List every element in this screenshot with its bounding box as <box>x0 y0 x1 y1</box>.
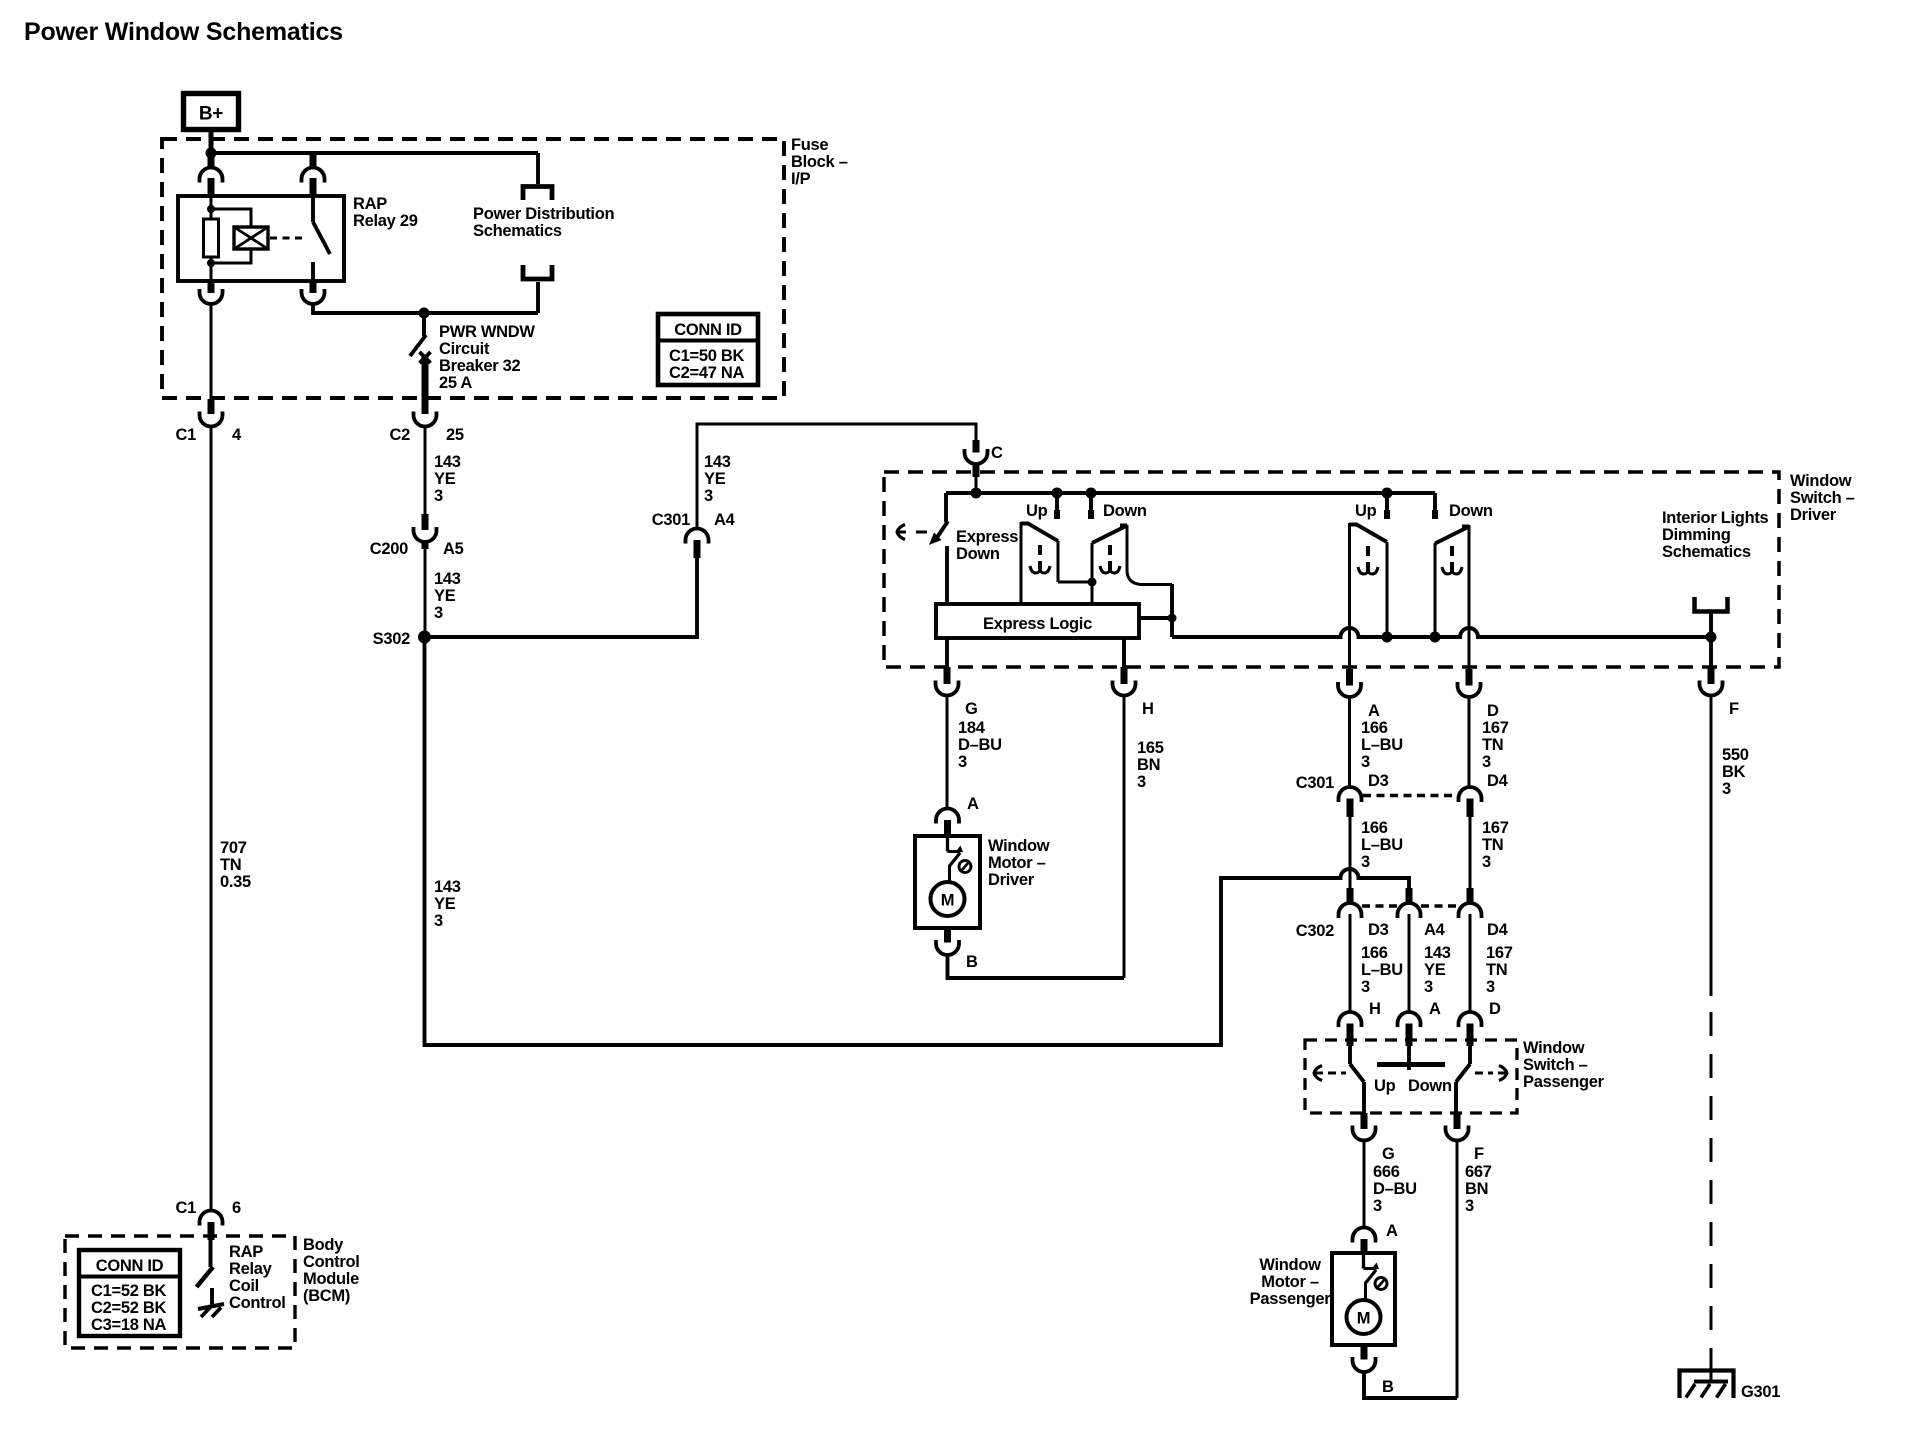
svg-text:YE: YE <box>434 895 456 913</box>
svg-text:3: 3 <box>1465 1197 1474 1215</box>
connector row C301 D4 <box>1459 787 1482 802</box>
svg-text:Express Logic: Express Logic <box>983 615 1092 633</box>
connector row C302 A4 <box>1406 888 1413 903</box>
connector H driver switch <box>1121 667 1128 684</box>
wire 166 L-BU middle <box>1349 816 1352 888</box>
svg-text:Coil: Coil <box>229 1277 259 1295</box>
connector B driver motor <box>944 928 951 943</box>
svg-text:143: 143 <box>1424 944 1451 962</box>
svg-text:166: 166 <box>1361 719 1388 737</box>
svg-text:RAP: RAP <box>229 1243 263 1261</box>
wire 143 YE S302 to passenger switch A4 <box>425 641 1410 1045</box>
svg-text:(BCM): (BCM) <box>303 1287 350 1305</box>
svg-text:3: 3 <box>958 753 967 771</box>
svg-text:167: 167 <box>1482 819 1509 837</box>
connector D driver switch <box>1466 669 1473 686</box>
svg-text:G: G <box>1382 1145 1395 1163</box>
connector F driver switch <box>1709 637 1713 667</box>
svg-text:F: F <box>1729 700 1739 718</box>
connector F passenger switch <box>1454 1113 1461 1129</box>
svg-text:Window: Window <box>1259 1256 1321 1274</box>
svg-text:RAP: RAP <box>353 195 387 213</box>
node down1 junction <box>1086 488 1097 499</box>
svg-text:I/P: I/P <box>791 170 811 188</box>
relay coil (box with X) <box>234 227 268 249</box>
svg-text:184: 184 <box>958 719 986 737</box>
svg-text:Up: Up <box>1374 1077 1396 1095</box>
svg-text:D: D <box>1489 1000 1501 1018</box>
svg-text:A4: A4 <box>714 511 736 529</box>
svg-text:M: M <box>1357 1310 1370 1328</box>
RAP relay coil control switch <box>209 1240 213 1267</box>
wire relay to C1 <box>210 304 213 400</box>
svg-text:A: A <box>1368 702 1380 720</box>
svg-text:H: H <box>1142 700 1154 718</box>
wire 667 BN <box>1456 1141 1459 1399</box>
B+ battery terminal <box>184 94 239 130</box>
svg-text:C1=52 BK: C1=52 BK <box>91 1282 166 1300</box>
interior lights dimming link bracket <box>1695 597 1728 612</box>
svg-text:Driver: Driver <box>988 871 1035 889</box>
svg-text:D–BU: D–BU <box>958 736 1002 754</box>
wire coil branch bottom <box>211 249 251 263</box>
svg-text:A5: A5 <box>443 540 464 558</box>
svg-text:3: 3 <box>704 487 713 505</box>
svg-text:167: 167 <box>1482 719 1509 737</box>
wire B to 165 BN <box>948 955 1125 978</box>
svg-text:25: 25 <box>446 426 464 444</box>
relay mechanical linkage (dashed) <box>270 237 303 240</box>
svg-text:TN: TN <box>1482 836 1503 854</box>
connector row C302 D4 <box>1467 888 1474 903</box>
svg-text:Control: Control <box>303 1253 360 1271</box>
svg-text:A: A <box>1429 1000 1441 1018</box>
passenger switch down blade <box>1468 1045 1472 1064</box>
svg-text:S302: S302 <box>373 630 410 648</box>
svg-text:Passenger: Passenger <box>1523 1073 1605 1091</box>
circle-slash breaker symbol <box>959 861 971 873</box>
svg-text:TN: TN <box>1486 961 1507 979</box>
svg-text:L–BU: L–BU <box>1361 736 1403 754</box>
svg-text:3: 3 <box>1361 753 1370 771</box>
connector C301 A4 <box>694 540 701 558</box>
svg-text:D4: D4 <box>1487 772 1509 790</box>
svg-text:Power Distribution: Power Distribution <box>473 205 614 223</box>
connector below relay switch output <box>310 281 317 293</box>
svg-text:25 A: 25 A <box>439 374 472 392</box>
wire S302 to C301 A4 <box>425 558 698 637</box>
svg-text:A: A <box>1386 1222 1398 1240</box>
svg-text:C2: C2 <box>390 426 411 444</box>
svg-text:3: 3 <box>1373 1197 1382 1215</box>
svg-text:3: 3 <box>1482 753 1491 771</box>
connector row C302 D3 <box>1347 888 1354 903</box>
svg-text:Fuse: Fuse <box>791 136 828 154</box>
wire: B+ feed rail <box>209 151 538 155</box>
driver switch lower rail <box>1172 628 1711 637</box>
window switch driver dashed box <box>884 472 1779 667</box>
splice S302 <box>418 631 431 644</box>
node down2 lower <box>1430 632 1441 643</box>
svg-text:Down: Down <box>1103 502 1147 520</box>
power distribution schematic link (top bracket) <box>536 153 540 184</box>
svg-text:D3: D3 <box>1368 772 1389 790</box>
svg-text:CONN ID: CONN ID <box>96 1257 164 1275</box>
svg-text:3: 3 <box>434 604 443 622</box>
svg-text:YE: YE <box>1424 961 1446 979</box>
svg-text:L–BU: L–BU <box>1361 961 1403 979</box>
svg-text:Switch –: Switch – <box>1790 489 1855 507</box>
node interior lights junction <box>1706 632 1717 643</box>
svg-text:3: 3 <box>434 912 443 930</box>
power distribution schematic link (bottom bracket) <box>523 265 552 279</box>
svg-text:Window: Window <box>988 837 1050 855</box>
wire 167 TN middle <box>1469 816 1472 888</box>
svg-text:Motor –: Motor – <box>1261 1273 1319 1291</box>
svg-text:D–BU: D–BU <box>1373 1180 1417 1198</box>
connector G driver switch <box>944 667 951 684</box>
relay switch contact wire <box>311 196 315 222</box>
svg-text:Schematics: Schematics <box>1662 543 1751 561</box>
svg-text:D4: D4 <box>1487 921 1509 939</box>
svg-text:YE: YE <box>434 470 456 488</box>
svg-text:Down: Down <box>956 545 1000 563</box>
svg-text:BN: BN <box>1465 1180 1488 1198</box>
svg-text:C2=47 NA: C2=47 NA <box>669 364 744 382</box>
svg-text:G301: G301 <box>1741 1383 1780 1401</box>
motor thermal protector switch <box>1362 1253 1365 1269</box>
svg-text:Power Window Schematics: Power Window Schematics <box>24 18 343 46</box>
node up1 junction <box>1052 488 1063 499</box>
svg-text:165: 165 <box>1137 739 1164 757</box>
wire 143 YE C2 to C200 <box>424 427 427 515</box>
express logic box <box>936 604 1139 638</box>
wire 143 YE lower <box>1408 914 1411 1012</box>
wire 707 to BCM <box>210 427 213 1211</box>
svg-text:A4: A4 <box>1424 921 1446 939</box>
momentary linkage right <box>1498 1066 1507 1081</box>
connector C at driver switch <box>973 440 980 453</box>
node relay coil bottom junction <box>207 259 215 267</box>
passenger switch up blade <box>1348 1045 1352 1064</box>
svg-text:Express: Express <box>956 528 1018 546</box>
svg-text:3: 3 <box>1722 780 1731 798</box>
svg-text:G: G <box>965 700 978 718</box>
wire up/down tie to express logic <box>1058 581 1092 584</box>
connector C1 pin 4 at fuse block <box>208 399 215 414</box>
svg-text:M: M <box>941 892 954 910</box>
svg-text:BN: BN <box>1137 756 1160 774</box>
svg-text:D3: D3 <box>1368 921 1389 939</box>
svg-text:Schematics: Schematics <box>473 222 562 240</box>
svg-text:143: 143 <box>434 453 461 471</box>
wire 550 BK <box>1710 696 1713 997</box>
svg-text:Relay: Relay <box>229 1260 273 1278</box>
wire 666 D-BU <box>1363 1141 1366 1228</box>
circle-slash breaker symbol <box>1375 1278 1387 1290</box>
svg-text:Dimming: Dimming <box>1662 526 1730 544</box>
svg-text:Down: Down <box>1449 502 1493 520</box>
svg-text:C302: C302 <box>1296 922 1334 940</box>
connector C200 A5 <box>422 514 429 530</box>
svg-text:166: 166 <box>1361 944 1388 962</box>
CONN ID table (fuse block) <box>658 314 758 385</box>
svg-text:Module: Module <box>303 1270 359 1288</box>
relay switch blade <box>313 222 330 254</box>
svg-text:3: 3 <box>1361 853 1370 871</box>
connector below relay pin C1 side <box>208 281 215 293</box>
svg-text:C301: C301 <box>652 511 690 529</box>
svg-text:3: 3 <box>1137 773 1146 791</box>
fuse block I/P dashed box <box>162 139 784 398</box>
connector pin into RAP relay pin 1 <box>208 155 215 168</box>
svg-text:BK: BK <box>1722 763 1746 781</box>
wire C301 A4 up and over to driver switch C <box>697 424 976 529</box>
svg-text:166: 166 <box>1361 819 1388 837</box>
svg-text:Breaker 32: Breaker 32 <box>439 357 521 375</box>
svg-text:C2=52 BK: C2=52 BK <box>91 1299 166 1317</box>
svg-text:B+: B+ <box>199 104 223 125</box>
wire express logic H output <box>1122 638 1126 667</box>
window motor driver box <box>915 836 980 928</box>
svg-text:Block –: Block – <box>791 153 848 171</box>
svg-text:143: 143 <box>434 570 461 588</box>
wire 167 TN lower <box>1469 914 1472 1012</box>
svg-text:Relay 29: Relay 29 <box>353 212 418 230</box>
svg-text:Window: Window <box>1523 1039 1585 1057</box>
wire relay coil top <box>210 196 213 220</box>
svg-text:YE: YE <box>704 470 726 488</box>
node up2 junction <box>1382 488 1393 499</box>
resistor (relay coil parallel resistor) <box>204 219 219 257</box>
svg-text:Driver: Driver <box>1790 506 1837 524</box>
svg-text:F: F <box>1474 1145 1484 1163</box>
motor thermal protector switch <box>946 836 949 852</box>
svg-text:C1=50 BK: C1=50 BK <box>669 347 744 365</box>
svg-text:Switch –: Switch – <box>1523 1056 1588 1074</box>
svg-text:550: 550 <box>1722 746 1749 764</box>
svg-text:C: C <box>991 444 1003 462</box>
svg-text:Motor –: Motor – <box>988 854 1046 872</box>
wire 165 BN <box>1123 696 1126 979</box>
motor M circle <box>931 882 965 916</box>
wire express logic G output <box>945 638 949 667</box>
wire 166 L-BU lower <box>1349 914 1352 1012</box>
svg-text:Up: Up <box>1355 502 1377 520</box>
node: B+ rail junction <box>206 148 217 159</box>
driver switch supply rail <box>946 491 1435 495</box>
svg-text:3: 3 <box>1482 853 1491 871</box>
connector pin into RAP relay pin 2 <box>310 155 317 168</box>
svg-text:Circuit: Circuit <box>439 340 490 358</box>
BCM dashed box <box>65 1236 295 1348</box>
svg-text:4: 4 <box>232 426 242 444</box>
svg-text:B: B <box>966 953 978 971</box>
svg-text:CONN ID: CONN ID <box>674 321 742 339</box>
svg-text:707: 707 <box>220 839 247 857</box>
wire 167 TN upper <box>1468 697 1471 788</box>
connector G passenger switch <box>1361 1113 1368 1129</box>
node up2 lower <box>1382 632 1393 643</box>
wire 184 D-BU <box>946 696 949 809</box>
C301 mating dashed line <box>1363 794 1457 798</box>
connector A driver switch <box>1346 669 1353 686</box>
wire down1 to lower rail <box>1170 584 1174 637</box>
svg-text:C301: C301 <box>1296 774 1334 792</box>
svg-text:H: H <box>1369 1000 1381 1018</box>
wire relay output to breaker node <box>313 304 538 313</box>
svg-text:143: 143 <box>434 878 461 896</box>
ground G301 <box>1680 1371 1734 1399</box>
window motor passenger box <box>1332 1253 1395 1345</box>
svg-text:Passenger: Passenger <box>1250 1290 1332 1308</box>
svg-text:D: D <box>1487 702 1499 720</box>
wire 166 L-BU upper <box>1348 697 1351 788</box>
svg-text:3: 3 <box>1424 978 1433 996</box>
svg-text:666: 666 <box>1373 1163 1400 1181</box>
svg-text:0.35: 0.35 <box>220 873 251 891</box>
svg-text:Up: Up <box>1026 502 1048 520</box>
svg-text:Control: Control <box>229 1294 286 1312</box>
wire C into driver switch box <box>975 464 978 493</box>
window switch passenger dashed box <box>1305 1040 1517 1113</box>
svg-text:TN: TN <box>1482 736 1503 754</box>
svg-text:TN: TN <box>220 856 241 874</box>
svg-text:Interior Lights: Interior Lights <box>1662 509 1769 527</box>
node relay coil top junction <box>207 205 215 213</box>
svg-text:C200: C200 <box>370 540 408 558</box>
svg-text:B: B <box>1382 1378 1394 1396</box>
svg-text:3: 3 <box>1361 978 1370 996</box>
node breaker junction <box>419 308 430 319</box>
svg-text:C3=18 NA: C3=18 NA <box>91 1316 166 1334</box>
svg-text:L–BU: L–BU <box>1361 836 1403 854</box>
svg-text:3: 3 <box>434 487 443 505</box>
svg-text:A: A <box>967 795 979 813</box>
svg-text:Down: Down <box>1408 1077 1452 1095</box>
node C junction <box>971 488 982 499</box>
wire B to 667 BN <box>1364 1372 1457 1398</box>
ground in BCM <box>198 1304 224 1309</box>
connector B passenger motor <box>1361 1345 1368 1360</box>
connector row C301 D3 <box>1339 787 1362 802</box>
svg-text:Body: Body <box>303 1236 344 1254</box>
motor M circle <box>1347 1300 1381 1334</box>
svg-text:YE: YE <box>434 587 456 605</box>
wire coil branch <box>211 209 251 227</box>
PWR WNDW circuit breaker 32 <box>422 317 426 336</box>
svg-text:3: 3 <box>1486 978 1495 996</box>
wire 143 YE C200 to S302 <box>424 548 427 637</box>
svg-text:C1: C1 <box>176 1199 197 1217</box>
CONN ID table (BCM) <box>79 1250 180 1336</box>
C302 mating dashed lines <box>1362 904 1397 908</box>
express down switch <box>944 493 948 522</box>
svg-text:167: 167 <box>1486 944 1513 962</box>
momentary linkage left <box>1314 1066 1323 1081</box>
connector C2 pin 25 at fuse block <box>422 399 429 414</box>
passenger switch rocker common bar <box>1407 1045 1411 1070</box>
svg-text:Window: Window <box>1790 472 1852 490</box>
svg-text:C1: C1 <box>176 426 197 444</box>
svg-text:667: 667 <box>1465 1163 1492 1181</box>
wire 550 BK dashed run to G301 <box>1710 1012 1713 1352</box>
svg-text:PWR WNDW: PWR WNDW <box>439 323 535 341</box>
svg-text:143: 143 <box>704 453 731 471</box>
RAP Relay 29 box <box>178 196 344 281</box>
wire B+ to fuse block <box>209 130 214 153</box>
svg-text:6: 6 <box>232 1199 241 1217</box>
